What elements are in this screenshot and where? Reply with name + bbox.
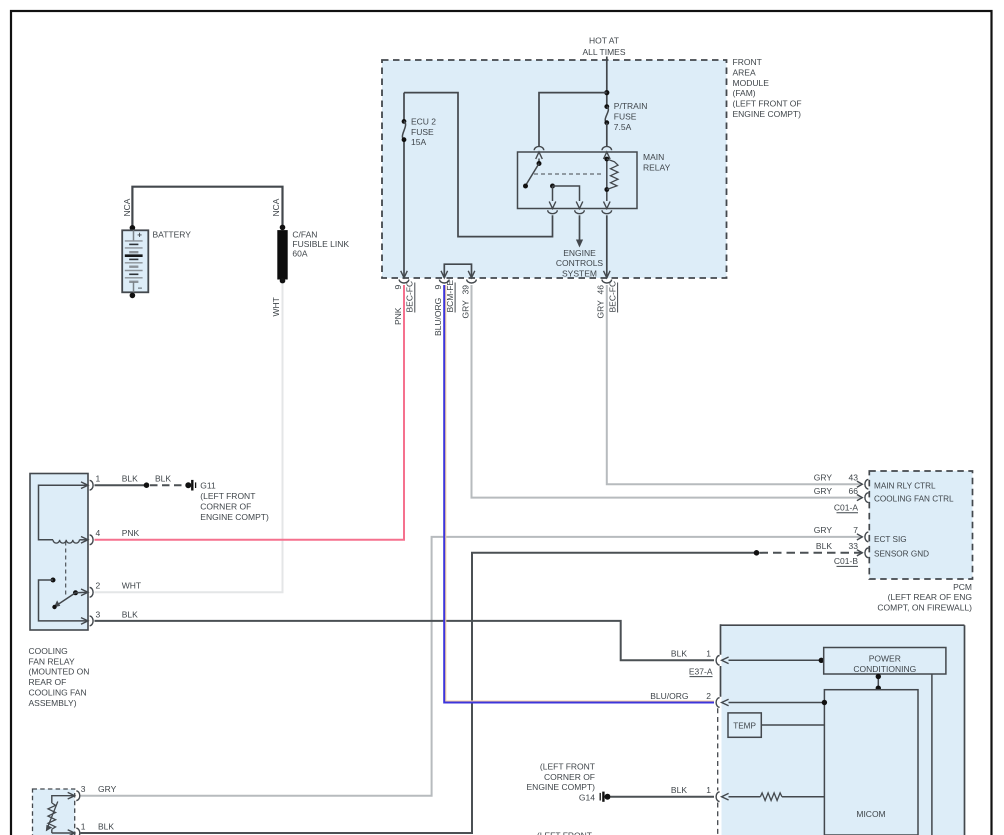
switch K2 arm <box>56 593 76 606</box>
svg-text:PNK: PNK <box>393 307 403 325</box>
wire GRY FAM39 to PCM66 <box>472 285 863 498</box>
wire hot feed main vertical <box>606 57 608 107</box>
node switch throw <box>523 184 528 189</box>
svg-text:GRY: GRY <box>98 784 117 794</box>
pin module 2 <box>722 699 729 706</box>
svg-text:ASSEMBLY): ASSEMBLY) <box>29 698 77 708</box>
node G11 wire junction <box>144 482 150 488</box>
svg-text:SYSTEM: SYSTEM <box>562 269 597 279</box>
node K2 fixed contact <box>51 578 56 583</box>
svg-text:FUSE: FUSE <box>411 127 434 137</box>
power conditioning box <box>824 648 946 675</box>
svg-text:BLU/ORG: BLU/ORG <box>433 298 443 336</box>
node MICOM top <box>876 686 881 691</box>
node coil top <box>604 157 609 162</box>
pin relay output B bottom <box>576 202 583 209</box>
svg-text:(LEFT FRONT: (LEFT FRONT <box>200 491 255 501</box>
svg-text:46: 46 <box>596 285 606 295</box>
svg-text:(LEFT FRONT: (LEFT FRONT <box>537 830 592 835</box>
svg-text:FAN RELAY: FAN RELAY <box>29 656 75 666</box>
pin sensor 1 <box>68 830 75 835</box>
svg-text:COMPT, ON FIREWALL): COMPT, ON FIREWALL) <box>877 602 972 612</box>
svg-text:NCA: NCA <box>122 198 132 216</box>
module right edge <box>964 625 966 835</box>
pin K2-2 <box>81 589 88 596</box>
svg-text:AREA: AREA <box>733 67 756 77</box>
FAM module box <box>382 60 727 278</box>
svg-text:33: 33 <box>849 541 859 551</box>
label G11 (LEFT FRONT CORNER OF ENGINE COMPT) <box>200 481 269 522</box>
fuse F2 P/TRAIN 7.5A <box>604 104 609 109</box>
svg-text:BEC-FC: BEC-FC <box>607 281 617 313</box>
pin module 1 E37-A <box>722 657 729 664</box>
battery internal plates <box>125 230 143 292</box>
label ENGINE CONTROLS SYSTEM <box>556 248 604 279</box>
node battery negative terminal <box>130 293 136 299</box>
wire TEMP to MICOM <box>761 724 824 726</box>
svg-text:FUSE: FUSE <box>614 111 637 121</box>
sensor internal wire bottom <box>52 829 75 833</box>
resistor R1 in module <box>760 793 782 801</box>
relay K1 MAIN RELAY box <box>518 152 638 209</box>
svg-text:4: 4 <box>96 528 101 538</box>
svg-text:2: 2 <box>706 691 711 701</box>
battery B1 body <box>122 230 148 292</box>
svg-text:ECT SIG: ECT SIG <box>874 535 907 544</box>
svg-text:39: 39 <box>460 285 470 295</box>
svg-text:COOLING: COOLING <box>29 646 68 656</box>
PCM module box <box>869 471 972 579</box>
thermistor arrow <box>48 802 58 828</box>
svg-text:POWER: POWER <box>869 654 901 664</box>
pin sensor 3 <box>68 792 75 799</box>
relay coil zigzag <box>607 159 618 190</box>
wire fuse to relay coil pin <box>606 123 608 146</box>
svg-text:HOT AT: HOT AT <box>589 36 619 46</box>
wire BLU/ORG FAM9 to module pin2 <box>444 285 714 703</box>
svg-text:G11: G11 <box>200 481 216 491</box>
svg-text:(LEFT FRONT OF: (LEFT FRONT OF <box>733 99 802 109</box>
svg-text:7: 7 <box>853 525 858 535</box>
node battery positive terminal <box>130 225 136 231</box>
svg-text:C01-B: C01-B <box>834 556 858 566</box>
svg-text:(LEFT REAR OF ENG: (LEFT REAR OF ENG <box>888 592 972 602</box>
wire ECU2 fuse drop <box>403 93 405 278</box>
svg-text:GRY: GRY <box>460 300 470 319</box>
svg-text:3: 3 <box>81 784 86 794</box>
label ECU 2 FUSE 15A <box>411 116 436 147</box>
svg-text:CONTROLS: CONTROLS <box>556 258 604 268</box>
node coil bottom <box>604 187 609 192</box>
svg-text:ENGINE: ENGINE <box>563 248 596 258</box>
svg-text:C/FAN: C/FAN <box>292 229 317 239</box>
svg-text:1: 1 <box>706 649 711 659</box>
svg-text:CONDITIONING: CONDITIONING <box>853 664 916 674</box>
svg-text:2: 2 <box>96 581 101 591</box>
svg-text:PNK: PNK <box>122 528 140 538</box>
svg-text:66: 66 <box>849 486 859 496</box>
svg-text:ENGINE COMPT): ENGINE COMPT) <box>527 782 596 792</box>
svg-text:BLK: BLK <box>155 474 171 484</box>
svg-text:BLU/ORG: BLU/ORG <box>650 691 688 701</box>
switch arm <box>527 164 540 185</box>
svg-text:(LEFT FRONT: (LEFT FRONT <box>540 762 595 772</box>
TEMP box <box>728 713 761 737</box>
wire K2 arm stem <box>76 591 89 594</box>
svg-text:REAR OF: REAR OF <box>29 677 67 687</box>
pin K2-1 <box>81 482 88 489</box>
wire K2 contact to pin3 <box>39 580 89 621</box>
svg-text:ENGINE COMPT): ENGINE COMPT) <box>733 109 802 119</box>
wire GRY ECT sensor to PCM7 <box>81 537 863 796</box>
ground G11 symbol <box>185 482 191 488</box>
wire BLK sensor gnd <box>81 553 756 833</box>
wire BLK sensor gnd dashed <box>760 552 863 554</box>
switch common stem <box>538 159 540 164</box>
svg-text:BLK: BLK <box>671 785 687 795</box>
svg-text:E37-A: E37-A <box>689 667 713 677</box>
pin module 1 G14 row <box>722 793 729 800</box>
node MICOM pin2 input <box>822 700 827 705</box>
fusible link F1 body <box>278 231 287 279</box>
wire PC rail drop <box>931 674 933 835</box>
label COOLING FAN RELAY caption <box>29 646 90 708</box>
wire BLU/ORG stripe <box>446 285 714 701</box>
svg-text:RELAY: RELAY <box>643 163 671 173</box>
pin K2-3 <box>81 618 88 625</box>
label G14 (LEFT FRONT CORNER OF ENGINE COMPT) <box>527 762 596 803</box>
label FRONT AREA MODULE (FAM) <box>733 57 802 119</box>
svg-text:GRY: GRY <box>596 300 606 319</box>
wire power conditioning to MICOM <box>877 674 879 690</box>
sensor box <box>33 789 75 835</box>
svg-text:FRONT: FRONT <box>733 57 762 67</box>
label HOT AT ALL TIMES <box>583 36 626 57</box>
coil vertical wire <box>606 159 608 202</box>
pin relay output A bottom <box>549 202 556 209</box>
wire module pin2 to MICOM <box>729 702 824 704</box>
svg-text:COOLING FAN: COOLING FAN <box>29 687 87 697</box>
svg-text:BEC-FC: BEC-FC <box>405 281 415 313</box>
svg-text:3: 3 <box>96 609 101 619</box>
relay K2 coil circuit <box>39 485 89 540</box>
label POWER CONDITIONING <box>853 654 916 674</box>
node fusible link bottom <box>280 278 286 284</box>
svg-text:60A: 60A <box>292 249 307 259</box>
node main feed junction <box>604 90 609 95</box>
svg-text:COOLING FAN CTRL: COOLING FAN CTRL <box>874 495 954 504</box>
wire engine controls drop <box>579 215 581 240</box>
sensor internal wire top <box>52 796 75 803</box>
pin PCM 66 <box>857 495 862 501</box>
svg-text:SENSOR GND: SENSOR GND <box>874 549 929 558</box>
svg-text:15A: 15A <box>411 137 426 147</box>
svg-text:(FAM): (FAM) <box>733 88 756 98</box>
svg-text:PCM: PCM <box>953 582 972 592</box>
pin PCM 43 <box>857 481 862 487</box>
wire WHT fusible link to relay pin2 <box>95 283 283 592</box>
pin FAM 9 BEC-FC <box>401 271 408 278</box>
svg-text:C01-A: C01-A <box>834 503 858 513</box>
thermistor RT1 <box>48 803 56 829</box>
node relay output junction <box>550 184 555 189</box>
svg-text:1: 1 <box>706 785 711 795</box>
wire resistor to MICOM <box>782 796 825 798</box>
pin FAM 46 BEC-FC <box>604 271 611 278</box>
svg-text:+: + <box>137 231 142 240</box>
wire BLK relay pin3 to module pin1 <box>95 621 715 660</box>
wire FAM internal bracket <box>444 264 471 278</box>
svg-text:ENGINE COMPT): ENGINE COMPT) <box>200 512 269 522</box>
wire coil to FAM exit <box>606 215 608 277</box>
svg-text:WHT: WHT <box>122 581 141 591</box>
svg-text:BLK: BLK <box>122 474 138 484</box>
pin FAM 39 <box>468 271 475 278</box>
svg-text:TEMP: TEMP <box>733 721 756 730</box>
svg-text:BLK: BLK <box>671 649 687 659</box>
module left edge solid <box>720 624 722 697</box>
svg-text:GRY: GRY <box>814 525 833 535</box>
wire PNK FAM9 to relay pin4 <box>95 285 405 540</box>
svg-text:MICOM: MICOM <box>856 809 885 819</box>
wire ECU2 jog to relay output <box>404 93 553 237</box>
svg-text:MAIN RLY CTRL: MAIN RLY CTRL <box>874 482 936 491</box>
svg-text:NCA: NCA <box>271 198 281 216</box>
relay K2 actuation dashed link <box>65 542 67 597</box>
wire battery to fusible link (NCA) <box>132 187 282 227</box>
ground G14 symbol <box>599 793 601 801</box>
label P/TRAIN FUSE 7.5A <box>614 101 648 132</box>
node K2 arm pivot <box>73 590 78 595</box>
wire relay output branch <box>553 186 580 201</box>
svg-text:BLK: BLK <box>122 609 138 619</box>
svg-text:1: 1 <box>81 821 86 831</box>
svg-text:CORNER OF: CORNER OF <box>544 772 595 782</box>
relay actuation dashed link <box>534 173 602 175</box>
svg-text:MODULE: MODULE <box>733 78 770 88</box>
pin PCM 33 <box>857 550 862 556</box>
svg-text:CORNER OF: CORNER OF <box>200 501 251 511</box>
svg-text:WHT: WHT <box>271 297 281 316</box>
wire BLK to G11 dashed <box>150 484 185 486</box>
module top edge <box>721 624 965 626</box>
svg-text:9: 9 <box>393 285 403 290</box>
pin relay switch top <box>536 152 543 159</box>
pin K2-4 <box>81 537 88 544</box>
svg-text:9: 9 <box>433 285 443 290</box>
wire BLK G14 external <box>611 796 715 798</box>
svg-text:BATTERY: BATTERY <box>153 230 192 240</box>
svg-text:(MOUNTED ON: (MOUNTED ON <box>29 667 90 677</box>
svg-text:FUSIBLE LINK: FUSIBLE LINK <box>292 239 349 249</box>
svg-text:GRY: GRY <box>814 486 833 496</box>
fan controller module fill <box>722 625 965 835</box>
pin relay coil top <box>604 152 611 159</box>
label MAIN RELAY <box>643 152 671 172</box>
node switch pivot <box>537 161 542 166</box>
node PC bottom <box>876 674 881 679</box>
node fusible link top <box>280 225 286 231</box>
svg-text:ALL TIMES: ALL TIMES <box>583 47 626 57</box>
MICOM box <box>824 690 918 835</box>
wire branch to relay switch <box>539 93 607 146</box>
svg-text:G14: G14 <box>579 792 595 802</box>
svg-text:BLK: BLK <box>98 821 114 831</box>
label PCM (LEFT REAR OF ENG COMPT, ON FIREWALL) <box>877 582 972 613</box>
label C/FAN FUSIBLE LINK 60A <box>292 229 349 258</box>
pin PCM 7 <box>857 534 862 540</box>
module left edge dashed <box>717 708 719 835</box>
relay K2 cooling fan relay box <box>30 474 88 631</box>
svg-text:MAIN: MAIN <box>643 152 664 162</box>
wire module G14 pin to resistor <box>729 796 761 798</box>
wire GRY FAM46 to PCM43 <box>607 285 863 484</box>
svg-text:ECU 2: ECU 2 <box>411 116 436 126</box>
svg-text:BLK: BLK <box>816 541 832 551</box>
svg-text:P/TRAIN: P/TRAIN <box>614 101 648 111</box>
svg-text:7.5A: 7.5A <box>614 122 632 132</box>
pin relay coil bottom <box>604 202 611 209</box>
svg-text:GRY: GRY <box>814 472 833 482</box>
node sensor gnd junction <box>754 550 760 556</box>
node power conditioning input <box>819 658 824 663</box>
fuse F3 ECU2 15A <box>402 119 407 124</box>
wire BLK to G11 solid <box>95 484 147 486</box>
svg-text:43: 43 <box>849 472 859 482</box>
pin FAM 9 BCM-FE <box>441 271 448 278</box>
wire module pin1 to power conditioning <box>729 659 820 661</box>
svg-text:–: – <box>138 284 143 293</box>
svg-text:1: 1 <box>96 474 101 484</box>
arrow engine controls system <box>576 240 583 248</box>
